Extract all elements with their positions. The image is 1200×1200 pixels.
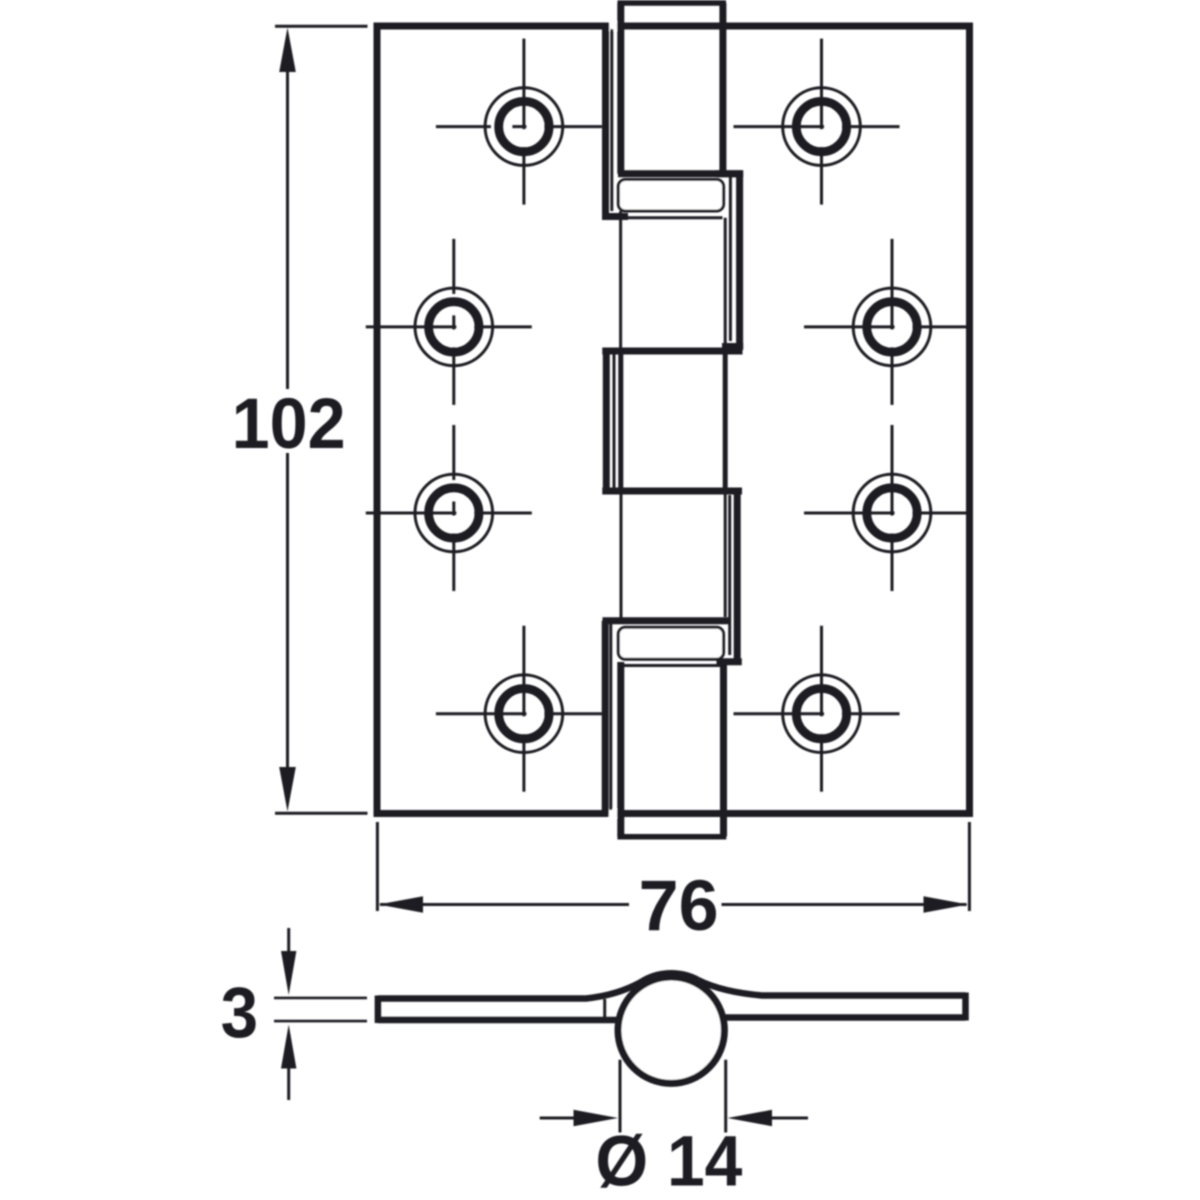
dimension 102 line and arrows [279, 28, 296, 812]
cross-section barrel circle [618, 977, 724, 1083]
screw hole bottom-right [734, 626, 900, 792]
dimension 76 label [639, 867, 719, 946]
left leaf lower edge at barrel [603, 621, 732, 814]
barrel segment 1 [618, 3, 743, 174]
right leaf upper curl [716, 171, 743, 348]
barrel segment 4 [621, 495, 725, 620]
screw hole top-left [436, 39, 602, 205]
plate bottom edge gap left of barrel [609, 809, 617, 818]
dimension 76 extension line left [376, 822, 379, 911]
plate top edge gap left of barrel [609, 22, 617, 31]
cross-section leaf joint line [603, 999, 606, 1019]
screw hole top-right [734, 39, 900, 205]
right leaf lower curl [717, 491, 742, 662]
washer band 1 [618, 180, 723, 212]
barrel top cap edge [618, 0, 727, 6]
screw hole bottom-left [436, 626, 602, 792]
hinge leaf plate outline [377, 26, 970, 814]
svg-text:76: 76 [639, 867, 719, 946]
left leaf upper edge at barrel [602, 26, 628, 217]
dimension 3 label [221, 974, 259, 1053]
barrel bottom cap edge [617, 834, 726, 840]
dimension 102 extension line top [275, 25, 368, 28]
screw hole mid-lower-left [366, 425, 532, 591]
svg-text:3: 3 [221, 974, 259, 1053]
dimension diameter 14 line and arrows [540, 1110, 808, 1126]
dimension diameter 14 label [595, 1123, 742, 1200]
dimension 102 label [232, 385, 346, 464]
cross-section left leaf bar [378, 973, 698, 1023]
barrel segment 2 [621, 211, 726, 348]
dimension 3 extension lines [274, 998, 367, 1021]
svg-text:102: 102 [232, 385, 346, 464]
screw hole mid-upper-right [804, 239, 970, 405]
barrel segment 3 middle knuckle [602, 348, 742, 494]
dimension 3 arrows and shafts [281, 928, 296, 1100]
washer band 2 [618, 627, 723, 659]
dimension 102 extension line bottom [275, 812, 368, 815]
barrel segment 5 [621, 662, 724, 837]
dimension diameter 14 extension lines [620, 1060, 726, 1133]
svg-text:Ø 14: Ø 14 [595, 1123, 742, 1200]
screw hole mid-lower-right [804, 425, 970, 591]
screw hole mid-upper-left [366, 239, 532, 405]
cross-section right leaf bar [698, 980, 966, 1021]
dimension 76 line and arrows [379, 896, 969, 913]
dimension 76 extension line right [968, 822, 971, 911]
